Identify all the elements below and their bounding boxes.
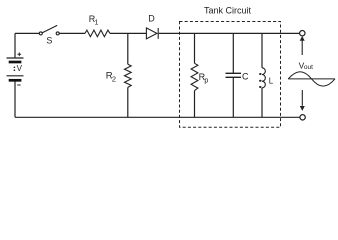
svg-text:S: S [46,35,52,45]
tank circuit dashed box [180,22,281,128]
wire R2 branch lower [127,87,129,117]
resistor R1 [85,30,110,37]
wire left vertical upper [14,33,16,57]
wire left vertical lower [14,81,16,118]
svg-text:D: D [148,14,155,24]
wire R1 to diode [110,32,146,34]
svg-text:Tank Circuit: Tank Circuit [204,5,252,15]
resistor R2 [125,64,132,87]
wire L branch lower [261,88,263,117]
battery V [7,53,24,86]
wire Rp branch upper [194,33,196,63]
wire switch to R1 [59,32,85,34]
top output terminal [300,31,305,36]
wire diode to top terminal [159,32,300,34]
wire C branch upper [232,33,234,73]
svg-text:V: V [17,64,23,73]
svg-text:1: 1 [95,19,99,26]
wire Rp branch lower [194,91,196,118]
svg-text:L: L [269,77,274,86]
switch S [39,25,59,35]
wire R2 branch upper [127,33,129,64]
bottom output terminal [300,115,305,120]
wire L branch upper [261,33,263,67]
inductor L [259,68,265,88]
wire bottom horizontal [15,116,300,118]
sine wave [288,72,335,86]
arrow down [300,90,305,111]
capacitor C [226,73,242,77]
wire top-left horizontal [15,32,39,34]
svg-text:out: out [304,64,313,71]
svg-text:p: p [204,77,208,84]
svg-text:C: C [242,71,249,81]
arrow up [300,36,305,55]
wire C branch lower [232,78,234,118]
svg-text:2: 2 [112,74,116,83]
resistor Rp [191,63,198,90]
diode D [146,28,158,39]
